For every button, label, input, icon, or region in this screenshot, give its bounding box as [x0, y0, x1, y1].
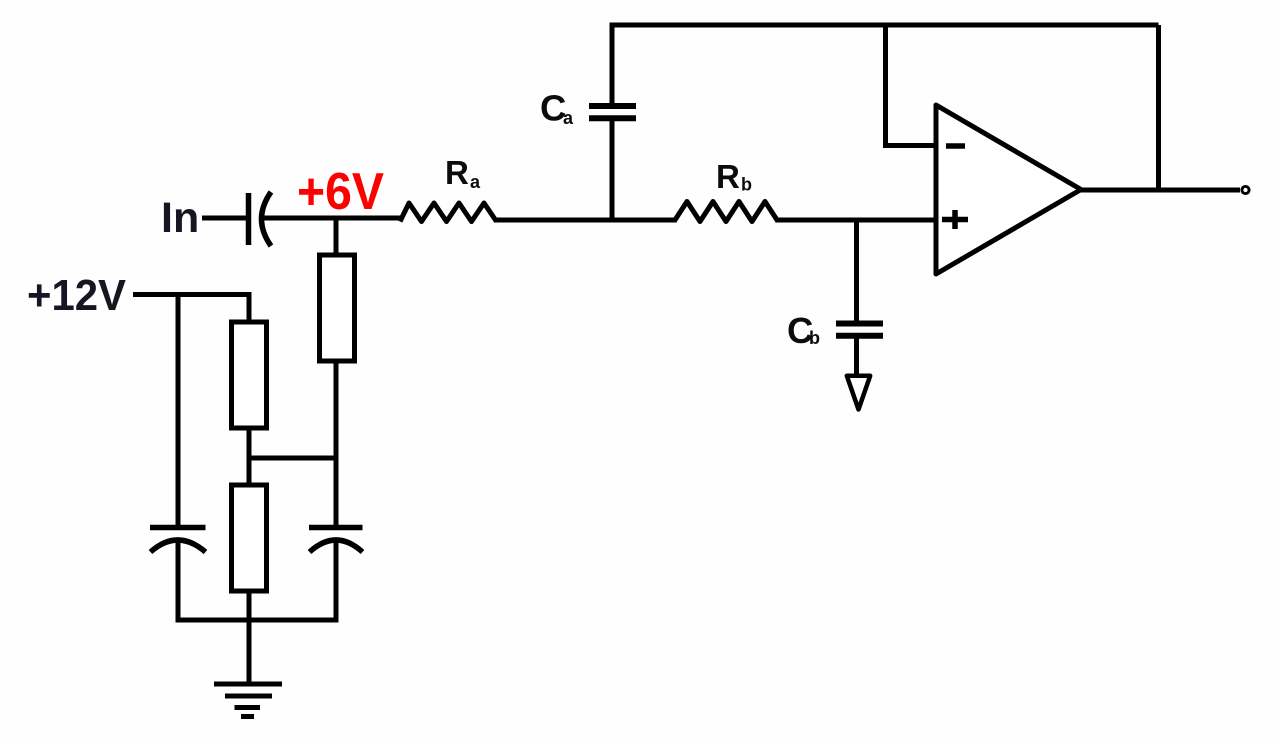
resistor Ra zigzag: [400, 203, 497, 222]
svg-text:b: b: [809, 328, 820, 348]
capacitor Cin curved plate: [262, 192, 272, 246]
wire feedback right drop to output: [1156, 25, 1161, 190]
node Cb junction vertical wire: [854, 220, 859, 323]
resistor Rb zigzag: [674, 202, 778, 222]
wire R3 down to right bypass cap: [334, 361, 339, 527]
wire feedback top rail: [610, 23, 1159, 28]
ground (earth symbol): [214, 682, 282, 687]
wire Cb to ground arrow: [854, 336, 859, 374]
wire bottom rail: [176, 618, 339, 623]
resistor R2 (divider bottom, box): [232, 485, 267, 591]
wire C1 to bottom rail: [176, 541, 181, 620]
op-amp minus sign: [946, 143, 965, 149]
capacitor C1 (left bypass) top plate: [150, 525, 206, 531]
op-amp plus sign: [942, 210, 968, 229]
wire R2 to bottom rail and ground stem top: [247, 591, 252, 620]
capacitor Cin (input coupling, flat plate): [246, 193, 252, 245]
wire R1 to R2: [247, 428, 252, 486]
op-amp U1 triangle: [936, 105, 1081, 274]
wire +12V rail: [133, 292, 252, 297]
capacitor C2 (right bypass) top plate: [309, 525, 363, 531]
wire ground stem: [247, 620, 252, 684]
capacitor C2 curved plate: [310, 540, 363, 552]
resistor R1 (divider top, box): [232, 322, 267, 428]
svg-text:R: R: [716, 158, 740, 195]
node Ca junction vertical wire: [610, 118, 615, 220]
capacitor Cb plates: [836, 324, 883, 336]
wire coupling cap to Ra: [262, 216, 402, 221]
resistor R3 (bias dropper under +6V node, box): [334, 220, 339, 256]
capacitor C1 curved plate: [151, 540, 206, 552]
wire C2 to bottom rail: [334, 541, 339, 620]
svg-text:b: b: [741, 175, 752, 195]
svg-text:R: R: [445, 154, 469, 191]
wire Ca top plate up to feedback rail: [610, 25, 615, 106]
node output terminal circle: [1242, 186, 1249, 193]
wire op-amp output: [1078, 188, 1240, 193]
wire Rb to op-amp plus input: [776, 218, 936, 223]
wire inverting input into op-amp: [883, 143, 938, 148]
wire Ra to Ca junction to Rb: [495, 218, 676, 223]
svg-text:+6V: +6V: [297, 163, 384, 221]
wire In to coupling cap: [202, 216, 247, 221]
capacitor Ca plates: [589, 106, 636, 118]
ground (arrow style) below Cb: [847, 376, 870, 410]
wire left bypass branch down: [176, 295, 181, 528]
svg-text:+12V: +12V: [27, 271, 127, 320]
svg-text:a: a: [563, 108, 574, 128]
wire inverting input drop from top rail: [883, 25, 888, 146]
wire +12V corner down into R1: [247, 295, 252, 324]
svg-text:In: In: [161, 194, 199, 242]
wire +6V tap from divider midpoint: [249, 456, 336, 461]
svg-text:a: a: [470, 172, 481, 192]
